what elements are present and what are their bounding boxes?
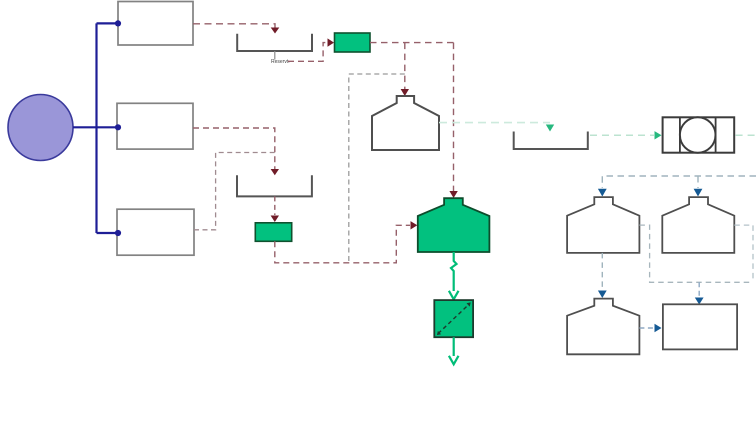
wire: G1 to tank T1 and tank T2 (dashed maroon) (370, 43, 454, 192)
dosing box G1 (green) (335, 33, 371, 52)
wire: R1 to basin B1 (dashed maroon) (193, 24, 275, 28)
node junction dot 2 (115, 124, 121, 130)
tank B (storage tank) (662, 197, 734, 253)
filter F1 corner mark bottom-left (437, 331, 441, 335)
pump P1 impeller circle (680, 117, 716, 153)
wire: tank B side outlet to right edge (gray dashed) (734, 225, 753, 282)
wire: pump P1 outlet to right edge (pale green dashed) (736, 134, 756, 136)
wire: R3 up to basin B2 (dashed gray-maroon) (194, 153, 275, 230)
source circle (raw water source) (8, 95, 73, 161)
wire: tank A side outlet down to lower header (gray dashed) (639, 225, 751, 282)
tank T2 (green treated-water tank) (418, 198, 490, 252)
box R2 (middle process box) (117, 103, 193, 149)
wire: B1 to dosing box G1 (dashed maroon) (288, 43, 328, 62)
node junction dot 3 (115, 230, 121, 236)
tank A (storage tank) (567, 197, 639, 253)
basin B3 (open tank) (514, 132, 588, 150)
pump P1 left partition (679, 117, 681, 152)
tank T1 (covered tank, white) (372, 96, 439, 150)
wire: R2 to basin B2 (dashed maroon) (193, 128, 275, 170)
wire: B1 outlet stub (274, 51, 276, 60)
arrow into dosing box G2 (271, 216, 279, 223)
wire: drop into bottom rect R4 (blue-gray dashed) (698, 282, 700, 297)
arrow into filter F1 (449, 291, 459, 300)
wire: G2 to tank T2 left inlet (dashed maroon) (275, 225, 410, 262)
arrow into dosing box G1 (328, 38, 335, 46)
box R3 (bottom process box) (117, 209, 194, 255)
node junction dot 1 (115, 20, 121, 26)
bottom rect R4 (process box) (663, 304, 737, 349)
wire: filter F1 outlet down (solid green) (453, 337, 455, 356)
wire: T1 to basin B3 (pale teal dashed) (439, 122, 550, 124)
filter F1 (green square with diagonal) (434, 300, 473, 337)
wire: main feed line from source (73, 23, 118, 233)
tank C (small covered tank bottom) (567, 299, 639, 355)
arrow into tank C neck (598, 291, 607, 299)
filter F1 diagonal dashed line (438, 304, 469, 334)
wire: B2 to dosing box G2 (dashed maroon) (274, 196, 276, 215)
arrow at green outlet end (449, 356, 459, 365)
wire: tank C to bottom rect R4 (blue-gray dashed) (639, 327, 654, 329)
wire: tank A bottom down to tank C (blue-gray dashed) (601, 253, 603, 290)
dosing box G2 (green) (255, 223, 291, 242)
pump P1 (inline pump body) (663, 117, 735, 152)
wire: distribution header (blue-gray dashed) to tanks A and B (602, 176, 756, 188)
arrow into tank T2 neck (449, 191, 457, 198)
arrow into basin B1 (271, 28, 280, 34)
arrow into tank T1 neck (401, 89, 409, 96)
box R1 (top process box) (118, 2, 193, 46)
basin B1 (open tank) (237, 34, 312, 51)
arrow into bottom rect R4 left (655, 324, 662, 332)
arrow into tank T2 left wall (411, 221, 418, 229)
filter F1 corner mark top-right (467, 302, 471, 306)
pump P1 right partition (715, 117, 717, 152)
arrow into basin B2 (271, 169, 279, 175)
wire: bypass line (gray dashed) from T1 inlet down to G2 outlet line (349, 74, 405, 263)
arrow into bottom rect R4 top (695, 298, 704, 305)
arrow into tank A neck (598, 189, 607, 197)
wire: B3 to pump P1 (pale green dashed) (590, 134, 654, 136)
basin B2 (open tank) (237, 175, 312, 196)
arrow down into basin B3 (546, 125, 554, 132)
arrow into pump P1 (655, 131, 662, 139)
svg-text:Reservt.: Reservt. (271, 59, 290, 65)
arrow into tank B neck (694, 189, 703, 197)
wire: T2 outlet down (solid green with break mark) (451, 252, 457, 291)
